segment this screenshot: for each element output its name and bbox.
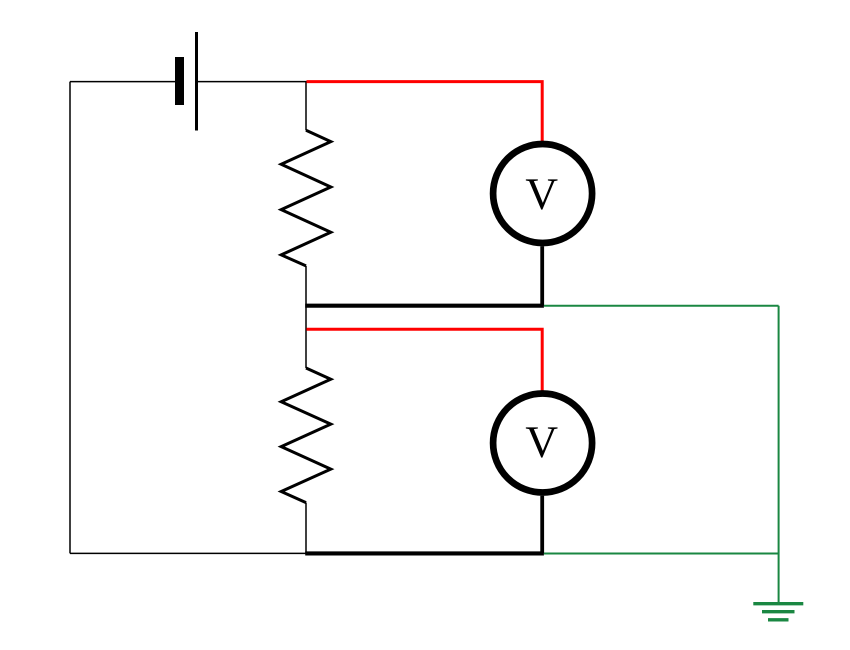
ground symbol — [753, 604, 803, 620]
wire R2 bottom to bottom rail — [305, 503, 307, 554]
voltmeter V2 label — [526, 427, 558, 457]
wire left vertical — [69, 82, 71, 554]
wire top right segment — [198, 81, 307, 83]
wire node A to resistor R1 — [305, 82, 307, 131]
wire R1 bottom to R2 top — [305, 266, 307, 368]
wire green bottom rail — [544, 553, 779, 555]
battery BT1 negative plate — [175, 57, 184, 105]
wire green right vertical — [778, 306, 780, 602]
wire middle thick rail — [305, 304, 544, 308]
resistor R1 — [281, 130, 331, 266]
wire red V1 positive lead — [307, 82, 543, 142]
resistor R2 — [281, 368, 331, 503]
voltmeter V2 circle — [493, 394, 592, 493]
battery BT1 positive plate — [195, 32, 198, 131]
wire red V2 positive lead — [307, 329, 543, 390]
voltmeter V1 circle — [493, 144, 592, 243]
voltmeter V1 label — [526, 179, 558, 209]
wire bottom thin segment — [70, 552, 306, 554]
wire V2 bottom lead — [540, 496, 544, 554]
wire green middle rail — [544, 305, 779, 307]
wire top left segment — [70, 81, 175, 83]
wire bottom thick rail — [305, 551, 544, 555]
wire V1 bottom lead — [540, 246, 544, 306]
